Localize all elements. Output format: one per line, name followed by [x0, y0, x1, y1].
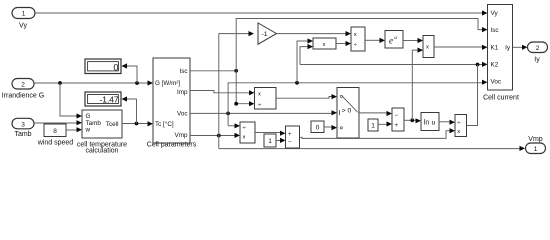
svg-text:0: 0 [113, 63, 118, 73]
svg-text:x: x [457, 129, 460, 135]
svg-text:Vmp: Vmp [528, 136, 543, 143]
svg-text:Iy: Iy [505, 45, 511, 52]
product X1 [313, 38, 336, 49]
outport 2 Iy [528, 42, 548, 64]
wire G up to display 0 [122, 63, 138, 83]
wire Vmp output to divide B [190, 133, 240, 138]
subsystem Cell current [483, 5, 519, 102]
product X2 [423, 36, 434, 58]
wire Voc riser east to Cell current Voc [228, 80, 487, 126]
svg-text:e: e [389, 36, 393, 46]
sum 1 minus-plus [392, 108, 404, 131]
divide C [455, 115, 467, 137]
node Tcell branch [135, 122, 139, 126]
svg-text:−: − [288, 140, 292, 146]
svg-text:w: w [85, 127, 91, 134]
wire Vmp vertical to gain and to outport [219, 31, 254, 149]
wire constant 1a to sum 2 [276, 138, 286, 143]
math function ln u [421, 113, 439, 131]
svg-text:K2: K2 [491, 62, 499, 69]
svg-text:Imp: Imp [177, 89, 188, 96]
wire divide A to switch in1 [276, 94, 337, 99]
wire divide B to sum 2 [255, 131, 286, 136]
wire exp to product X2 [403, 38, 423, 43]
svg-text:+: + [395, 123, 399, 129]
svg-text:Isc: Isc [491, 27, 499, 34]
wire Tamb to cell temperature [34, 120, 82, 125]
svg-text:+: + [288, 132, 292, 138]
svg-text:−: − [395, 113, 399, 119]
wire Isc down to divide A [236, 71, 254, 107]
svg-text:u: u [432, 117, 436, 126]
constant 8 wind speed [37, 124, 74, 147]
outport 1 Vmp [526, 136, 546, 154]
display -1.47 [85, 92, 121, 106]
wire Isc output [190, 70, 236, 72]
wire wind speed to w input [66, 127, 82, 132]
wire Tcell up to display -1.47 [122, 96, 137, 123]
wire Imp to divide A [190, 90, 255, 95]
svg-text:-1: -1 [262, 31, 268, 38]
svg-text:ln: ln [424, 119, 430, 126]
wire divide T to exp [365, 38, 385, 43]
inport 2 Irradiance G [2, 79, 44, 100]
divide A x/divide [255, 88, 277, 110]
svg-text:Irrandience G: Irrandience G [2, 93, 44, 100]
node G-branch display [135, 81, 139, 85]
node Voc branch [226, 112, 230, 116]
svg-text:G [W/m²]: G [W/m²] [155, 80, 180, 87]
math function exp e^u [385, 31, 403, 49]
wire Vy to Cell current [35, 10, 488, 15]
svg-text:x: x [354, 32, 357, 38]
wire X2 to Cell current K1 [434, 45, 488, 50]
wire sum1 up to X2 input 2 [412, 48, 423, 121]
svg-text:Tc [°C]: Tc [°C] [155, 120, 174, 128]
svg-text:Isc: Isc [179, 68, 187, 75]
wire switch to sum 1 [359, 111, 392, 116]
node K2 from divide C [476, 63, 480, 67]
constant 1 a [264, 134, 276, 147]
svg-text:wind speed: wind speed [37, 140, 74, 147]
svg-text:Tcell: Tcell [106, 121, 119, 128]
svg-text:x: x [258, 92, 261, 98]
switch greater than 0 [337, 88, 359, 139]
node Vmp branch [217, 134, 221, 138]
svg-text:÷: ÷ [243, 126, 246, 132]
svg-text:3: 3 [21, 121, 25, 128]
wire sum1 to ln [404, 118, 421, 123]
svg-text:Cell parameters: Cell parameters [147, 142, 197, 149]
wire constant 1b to sum 1 [378, 121, 392, 126]
svg-text:K1: K1 [491, 45, 499, 52]
wire X1 to divide T [336, 41, 351, 46]
wire ln to divide C [439, 120, 455, 125]
svg-text:2: 2 [536, 45, 540, 52]
node Isc branch [234, 69, 238, 73]
svg-text:Vy: Vy [19, 23, 27, 30]
subsystem cell temperature calculation [77, 110, 127, 155]
wire Vmp bottom to outport 1 [219, 146, 525, 151]
svg-text:2: 2 [21, 82, 25, 89]
svg-text:0: 0 [316, 124, 320, 131]
svg-text:Voc: Voc [491, 79, 502, 86]
wire K2 long across [300, 44, 488, 67]
svg-text:> 0: > 0 [342, 107, 352, 114]
svg-text:Iy: Iy [534, 57, 540, 64]
sum 2 plus-minus [286, 126, 300, 148]
constant 0 [311, 121, 324, 133]
svg-text:x: x [323, 42, 326, 48]
node Voc to X1 [295, 81, 299, 85]
wire G down to cell temperature G input [60, 83, 82, 119]
svg-text:1: 1 [371, 123, 375, 130]
svg-text:Voc: Voc [177, 111, 188, 118]
svg-text:1: 1 [268, 138, 272, 145]
subsystem Cell parameters [147, 58, 197, 149]
wire Voc output to switch control [190, 110, 337, 115]
svg-text:8: 8 [53, 128, 57, 135]
svg-text:x: x [426, 45, 429, 51]
inport 3 Tamb [12, 118, 34, 138]
svg-text:Vy: Vy [491, 10, 499, 17]
svg-text:x: x [243, 134, 246, 140]
constant 1 b [368, 119, 378, 131]
node sum1 branch to X2 [410, 118, 414, 122]
wire sum2 to divide C [300, 128, 456, 138]
divide B [240, 122, 255, 143]
wire Iy to outport 2 [513, 45, 528, 50]
inport 1 Vy [12, 8, 35, 30]
divide T [351, 27, 365, 51]
svg-text:-1.47: -1.47 [100, 95, 119, 105]
wire Voc up to product X1 input 1 [297, 38, 313, 82]
wire Tcell to Cell parameters Tc [122, 121, 153, 126]
node G-branch down [58, 81, 62, 85]
svg-text:Vmp: Vmp [175, 132, 188, 139]
display 0 [85, 59, 121, 74]
svg-text:calculation: calculation [85, 148, 118, 155]
svg-text:1: 1 [22, 10, 26, 17]
svg-text:1: 1 [534, 146, 538, 153]
wire constant 0 to switch in3 [324, 125, 337, 130]
wire divide C output loop up to K2 [467, 65, 478, 126]
svg-text:÷: ÷ [354, 42, 357, 48]
gain -1 [258, 23, 277, 44]
svg-text:Tamb: Tamb [14, 131, 31, 138]
svg-text:÷: ÷ [457, 120, 460, 126]
wire Isc up and across top to Cell current Isc [236, 19, 487, 71]
node Isc to divide A [234, 102, 238, 106]
svg-text:Cell current: Cell current [483, 95, 519, 102]
svg-text:÷: ÷ [258, 102, 261, 108]
wire gain to divide T [277, 31, 352, 36]
wire Voc branch down to divide B [228, 123, 240, 128]
wire G to Cell parameters [34, 80, 153, 85]
svg-text:u: u [394, 35, 397, 41]
